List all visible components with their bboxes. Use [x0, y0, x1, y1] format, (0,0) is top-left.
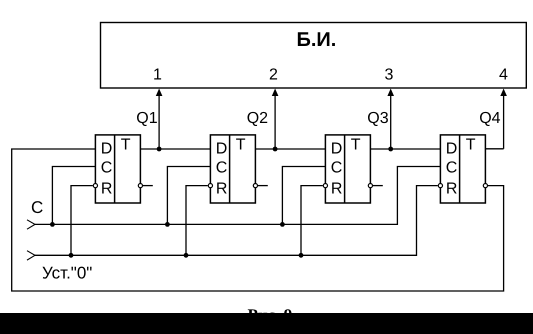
input terminal reset chevron [27, 251, 35, 260]
svg-text:T: T [351, 137, 361, 154]
R input bubble DD3 [323, 184, 327, 188]
inverted output bubble DD2 [253, 184, 257, 188]
svg-text:Уст."0": Уст."0" [42, 264, 92, 283]
wire Q4 to B.I. [503, 92, 505, 149]
feedback wire notQ4 to D1 [12, 149, 504, 291]
stub wire notQ1 [143, 185, 153, 187]
svg-text:Q3: Q3 [367, 110, 388, 127]
wire Q3 to B.I. [390, 92, 392, 149]
junction clock C3 [280, 222, 285, 227]
svg-text:T: T [121, 137, 131, 154]
stub wire notQ2 [258, 185, 268, 187]
svg-text:R: R [331, 181, 343, 198]
input terminal C chevron [27, 220, 35, 229]
svg-text:3: 3 [385, 67, 394, 84]
svg-text:T: T [236, 137, 246, 154]
wire R3 [301, 186, 323, 256]
R input bubble DD1 [93, 184, 97, 188]
svg-text:R: R [446, 181, 458, 198]
reset bus wire [35, 186, 438, 256]
junction node Q1 [157, 147, 162, 152]
svg-text:Q2: Q2 [247, 110, 268, 127]
arrowhead 1 [156, 89, 163, 97]
svg-text:D: D [446, 140, 458, 157]
junction reset R1 [69, 253, 74, 258]
svg-text:2: 2 [269, 67, 278, 84]
junction reset R3 [299, 253, 304, 258]
wire R2 [186, 186, 208, 256]
svg-text:D: D [216, 140, 228, 157]
arrowhead 2 [272, 89, 279, 97]
wire Q2 to B.I. [274, 92, 276, 149]
svg-text:R: R [101, 181, 113, 198]
flip-flop DD4 box [440, 135, 485, 203]
flip-flop DD3 box [325, 135, 370, 203]
R input bubble DD2 [208, 184, 212, 188]
wire Q1 to D2 [140, 148, 210, 150]
arrowhead 4 [500, 89, 507, 97]
svg-text:C: C [331, 160, 343, 177]
arrowhead 3 [387, 89, 394, 97]
svg-text:C: C [216, 160, 228, 177]
svg-text:C: C [101, 160, 113, 177]
junction node Q2 [273, 147, 278, 152]
wire C1 [52, 167, 95, 225]
svg-text:C: C [446, 160, 458, 177]
junction clock C1 [50, 222, 55, 227]
inverted output bubble DD1 [138, 184, 142, 188]
wire Q3 to D4 [370, 148, 440, 150]
wire Q1 to B.I. [158, 92, 160, 149]
wire C3 [282, 167, 325, 225]
svg-text:1: 1 [153, 67, 162, 84]
inverted output bubble DD4 [483, 184, 487, 188]
svg-text:R: R [216, 181, 228, 198]
junction node Q3 [388, 147, 393, 152]
inverted output bubble DD3 [368, 184, 372, 188]
svg-text:D: D [101, 140, 113, 157]
svg-text:4: 4 [499, 67, 508, 84]
stub wire notQ3 [373, 185, 383, 187]
svg-text:Б.И.: Б.И. [297, 29, 337, 51]
wire C2 [167, 167, 210, 225]
clock bus wire [35, 167, 440, 225]
black bar [0, 313, 533, 334]
flip-flop DD1 box [95, 135, 140, 203]
svg-text:Q1: Q1 [136, 110, 157, 127]
wire Q2 to D3 [255, 148, 325, 150]
display block B.I. [101, 23, 527, 89]
wire Q4 output corner [485, 148, 503, 150]
svg-text:D: D [331, 140, 343, 157]
svg-text:Q4: Q4 [479, 110, 500, 127]
svg-text:C: C [31, 198, 43, 217]
junction reset R2 [184, 253, 189, 258]
svg-text:T: T [466, 137, 476, 154]
wire R1 [71, 186, 93, 256]
junction clock C2 [165, 222, 170, 227]
flip-flop DD2 box [210, 135, 255, 203]
R input bubble DD4 [438, 184, 442, 188]
